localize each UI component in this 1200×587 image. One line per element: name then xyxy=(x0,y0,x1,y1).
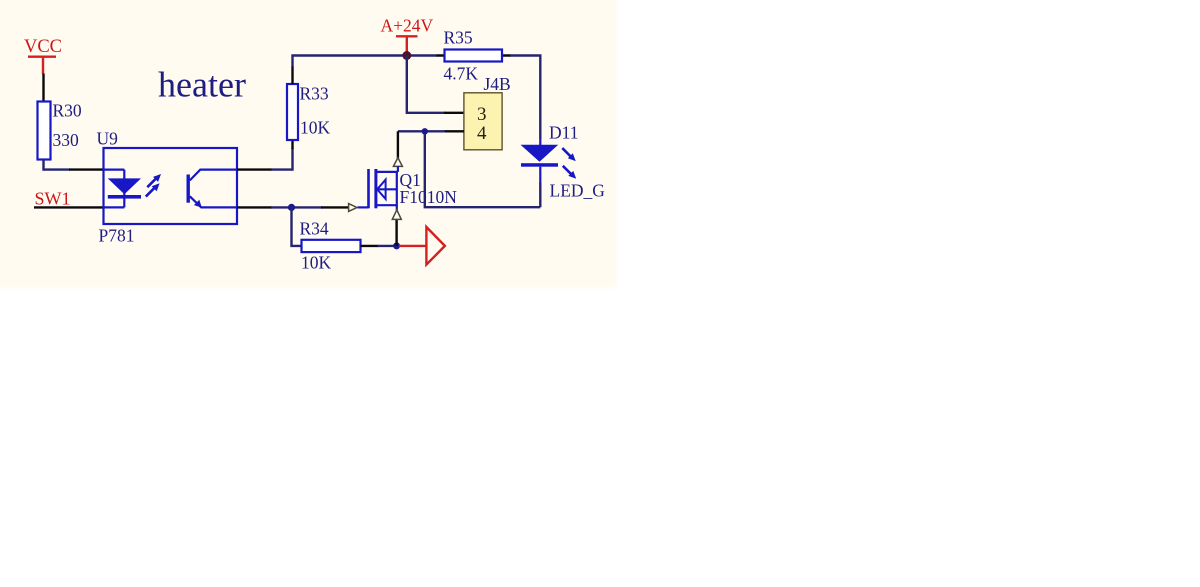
wire source node up to Q1 source xyxy=(395,220,397,246)
svg-text:R33: R33 xyxy=(300,84,329,104)
junction node gate/R34 xyxy=(288,204,295,211)
junction node A+24V xyxy=(402,51,411,60)
optocoupler U9 xyxy=(104,148,238,224)
wire SW1 to U9 cathode pin xyxy=(34,206,104,208)
emission arrow lower (U9) xyxy=(146,183,160,196)
pin arrow Q1 drain xyxy=(393,158,402,167)
svg-text:P781: P781 xyxy=(99,226,135,246)
transistor Q1 xyxy=(358,166,398,210)
emission arrow upper (D11) xyxy=(562,148,575,161)
pin arrow Q1 gate xyxy=(349,204,357,212)
svg-text:LED_G: LED_G xyxy=(550,181,606,201)
wire U9 emitter to gate net xyxy=(237,206,272,208)
svg-text:VCC: VCC xyxy=(24,37,62,57)
wire R33 top to +24V rail xyxy=(293,56,438,85)
svg-text:J4B: J4B xyxy=(484,74,511,94)
svg-text:D11: D11 xyxy=(549,123,579,143)
wire R35 to D11 branch xyxy=(510,56,540,140)
phototransistor inside U9 xyxy=(187,170,238,208)
resistor R30 xyxy=(38,102,51,160)
wire R34 to source node xyxy=(361,245,397,247)
svg-text:U9: U9 xyxy=(97,129,119,149)
svg-text:4.7K: 4.7K xyxy=(444,64,479,84)
svg-text:heater: heater xyxy=(158,65,246,105)
svg-text:330: 330 xyxy=(53,130,80,150)
LED inside U9 xyxy=(104,170,124,208)
pin arrow Q1 source xyxy=(392,210,401,220)
svg-text:R30: R30 xyxy=(53,101,82,121)
svg-text:10K: 10K xyxy=(301,253,332,273)
resistor R34 xyxy=(302,240,361,252)
junction node source/R34 xyxy=(393,242,400,249)
svg-text:4: 4 xyxy=(477,123,487,144)
emission arrow lower (D11) xyxy=(563,166,576,179)
power symbol A+24V xyxy=(380,16,433,53)
svg-text:R35: R35 xyxy=(444,28,473,48)
svg-text:R34: R34 xyxy=(300,219,329,239)
power symbol VCC xyxy=(24,37,62,74)
svg-text:F1010N: F1010N xyxy=(400,187,458,207)
output port triangle xyxy=(426,227,445,265)
junction node pin4 xyxy=(422,128,428,134)
wire D11 cathode down xyxy=(539,183,541,208)
wire U9 collector to R33 xyxy=(237,140,293,170)
connector J4B xyxy=(464,93,502,150)
resistor R35 xyxy=(437,50,512,62)
wire gate node down to R34 xyxy=(292,207,302,246)
svg-text:10K: 10K xyxy=(300,118,331,138)
svg-text:3: 3 xyxy=(477,104,487,125)
emission arrow upper (U9) xyxy=(147,174,161,187)
wire +24V to J4B pin 3 xyxy=(407,56,464,113)
wire J4B pin 4 to Q1 drain and D11 cathode xyxy=(398,131,540,207)
svg-text:A+24V: A+24V xyxy=(380,16,433,36)
LED D11 xyxy=(521,139,577,184)
resistor R33 xyxy=(287,84,298,140)
wire source node to output port xyxy=(399,245,426,247)
wire VCC to R30 xyxy=(42,74,44,102)
svg-text:SW1: SW1 xyxy=(35,189,71,209)
wire R30 to U9 anode pin xyxy=(44,160,105,170)
